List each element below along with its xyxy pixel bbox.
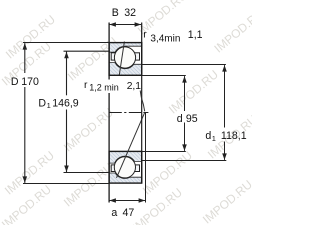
cage right (bottom section) [135, 165, 140, 172]
d1 extension top [142, 64, 226, 66]
svg-text:r: r [84, 80, 88, 91]
D extension bottom [23, 183, 109, 185]
D1 arrow top [64, 52, 69, 59]
B arrow right [135, 22, 142, 27]
svg-text:2,1: 2,1 [127, 81, 142, 92]
svg-text:1,1: 1,1 [188, 29, 203, 41]
outer ring (top section) [109, 43, 142, 53]
D1 arrow bottom [64, 166, 69, 173]
top section border [109, 43, 142, 76]
D1 dimension line [66, 52, 68, 96]
D arrow bottom [23, 176, 28, 183]
axis centerline (dash-dot) [109, 112, 148, 114]
right face line (runs between sections) [141, 23, 143, 184]
d1 arrow top [222, 65, 227, 72]
svg-text:d: d [205, 130, 211, 142]
svg-text:3,4min: 3,4min [150, 34, 180, 45]
svg-text:170: 170 [21, 76, 39, 88]
D arrow top [23, 43, 28, 50]
a dimension line [109, 200, 145, 202]
d1 dimension line [224, 65, 226, 127]
a extension right (from axis crossing down) [145, 113, 147, 203]
left face extension line (runs from top section to a-dimension) [108, 23, 110, 203]
bottom section border [109, 151, 142, 183]
svg-text:1: 1 [47, 101, 51, 110]
a arrow right [139, 198, 146, 203]
d1 extension bottom [142, 160, 226, 162]
svg-text:D: D [11, 76, 19, 88]
d arrow top [182, 76, 187, 83]
svg-text:32: 32 [124, 7, 136, 19]
svg-text:1,2 min: 1,2 min [89, 83, 119, 93]
d extension bottom [142, 151, 186, 153]
svg-text:D: D [38, 97, 46, 109]
label r 1,2 min (white backing over face line) [83, 80, 116, 94]
d1 arrow bottom [222, 153, 227, 160]
svg-text:1: 1 [212, 134, 216, 143]
inner ring (top section) [109, 63, 142, 76]
svg-text:118,1: 118,1 [221, 130, 247, 142]
contact angle line (bottom section, crosses axis) [117, 112, 145, 178]
ball (top section) [114, 47, 135, 68]
svg-text:d: d [177, 113, 183, 125]
svg-text:47: 47 [123, 207, 135, 219]
d extension top [142, 75, 186, 77]
contact angle line (top section) [119, 42, 124, 76]
ball (bottom section) [114, 157, 135, 178]
cage left (top section) [111, 53, 115, 60]
svg-text:146,9: 146,9 [52, 97, 79, 109]
D1 extension bottom [64, 172, 110, 174]
leader 2,1 [140, 91, 145, 112]
svg-text:a: a [111, 207, 117, 219]
svg-text:r: r [143, 29, 147, 40]
svg-text:95: 95 [186, 113, 198, 125]
B arrow left [109, 22, 116, 27]
d arrow bottom [182, 144, 187, 151]
a arrow left [109, 198, 116, 203]
D dimension line [24, 43, 26, 73]
D extension top [23, 42, 109, 44]
cage left (bottom section) [111, 165, 115, 172]
cage right (top section) [135, 53, 140, 60]
D1 extension top [64, 50, 110, 52]
d dimension line [184, 76, 186, 111]
outer ring (bottom section) [109, 173, 142, 183]
svg-text:B: B [112, 7, 119, 19]
inner ring (bottom section) [109, 151, 142, 163]
B dimension line [109, 24, 141, 26]
